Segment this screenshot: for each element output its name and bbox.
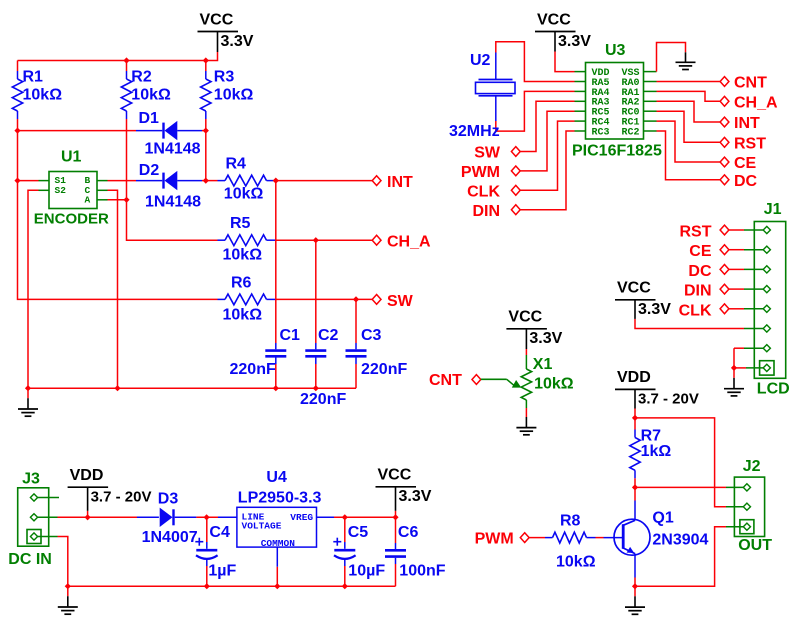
svg-text:10kΩ: 10kΩ xyxy=(131,87,171,104)
svg-text:VDD: VDD xyxy=(617,369,651,386)
svg-text:VOLTAGE: VOLTAGE xyxy=(242,520,282,531)
svg-text:R5: R5 xyxy=(230,215,251,232)
svg-text:DC: DC xyxy=(688,263,712,280)
svg-text:VCC: VCC xyxy=(617,280,651,297)
svg-text:OUT: OUT xyxy=(738,537,772,554)
svg-text:10kΩ: 10kΩ xyxy=(223,247,263,264)
svg-text:C2: C2 xyxy=(318,327,339,344)
svg-text:D1: D1 xyxy=(139,110,160,127)
svg-text:VCC: VCC xyxy=(200,11,234,28)
svg-text:3.3V: 3.3V xyxy=(529,330,562,347)
svg-text:J1: J1 xyxy=(764,201,782,218)
svg-text:3.3V: 3.3V xyxy=(399,488,432,505)
svg-text:220nF: 220nF xyxy=(300,391,346,408)
svg-text:U2: U2 xyxy=(470,52,491,69)
svg-text:1N4148: 1N4148 xyxy=(145,140,201,157)
svg-text:10kΩ: 10kΩ xyxy=(534,376,574,393)
svg-text:J3: J3 xyxy=(22,471,40,488)
svg-text:1µF: 1µF xyxy=(208,562,236,579)
svg-text:A: A xyxy=(85,195,91,206)
svg-text:3.3V: 3.3V xyxy=(558,33,591,50)
svg-text:1N4007: 1N4007 xyxy=(142,529,198,546)
svg-text:LP2950-3.3: LP2950-3.3 xyxy=(238,490,322,507)
svg-text:PWM: PWM xyxy=(461,164,500,181)
svg-text:RST: RST xyxy=(734,136,766,153)
svg-text:X1: X1 xyxy=(533,356,553,373)
svg-text:DC IN: DC IN xyxy=(8,551,52,568)
svg-text:CH_A: CH_A xyxy=(387,234,431,251)
svg-text:R4: R4 xyxy=(226,156,247,173)
svg-text:DIN: DIN xyxy=(684,283,712,300)
svg-text:RC2: RC2 xyxy=(622,127,640,138)
svg-text:CE: CE xyxy=(734,155,757,172)
svg-text:3.7 - 20V: 3.7 - 20V xyxy=(638,391,699,408)
svg-text:10µF: 10µF xyxy=(348,562,385,579)
svg-text:C4: C4 xyxy=(209,524,230,541)
svg-text:3.7 - 20V: 3.7 - 20V xyxy=(91,489,152,506)
svg-text:U1: U1 xyxy=(61,148,82,165)
svg-text:1N4148: 1N4148 xyxy=(145,193,201,210)
svg-text:10kΩ: 10kΩ xyxy=(214,87,254,104)
svg-text:DC: DC xyxy=(734,173,758,190)
svg-text:VDD: VDD xyxy=(70,467,104,484)
svg-text:CH_A: CH_A xyxy=(734,95,778,112)
svg-text:INT: INT xyxy=(387,174,413,191)
svg-text:SW: SW xyxy=(474,145,501,162)
svg-text:10kΩ: 10kΩ xyxy=(224,186,264,203)
svg-text:R2: R2 xyxy=(131,68,152,85)
svg-text:CLK: CLK xyxy=(467,184,500,201)
svg-text:RST: RST xyxy=(680,224,712,241)
svg-text:C1: C1 xyxy=(280,327,301,344)
svg-text:1kΩ: 1kΩ xyxy=(641,443,672,460)
svg-text:PWM: PWM xyxy=(475,531,514,548)
svg-text:ENCODER: ENCODER xyxy=(34,211,109,228)
svg-text:R8: R8 xyxy=(560,512,581,529)
svg-text:C6: C6 xyxy=(398,524,419,541)
svg-text:CNT: CNT xyxy=(429,372,462,389)
svg-text:R6: R6 xyxy=(231,275,252,292)
svg-text:R1: R1 xyxy=(23,68,44,85)
svg-text:100nF: 100nF xyxy=(399,562,445,579)
svg-text:U3: U3 xyxy=(605,42,626,59)
svg-text:CE: CE xyxy=(689,243,712,260)
svg-text:C3: C3 xyxy=(361,327,382,344)
svg-text:CLK: CLK xyxy=(679,302,712,319)
svg-text:10kΩ: 10kΩ xyxy=(556,553,596,570)
svg-text:Q1: Q1 xyxy=(652,510,673,527)
svg-text:R3: R3 xyxy=(214,68,235,85)
svg-text:DIN: DIN xyxy=(472,203,500,220)
svg-text:VREG: VREG xyxy=(290,512,313,523)
svg-text:J2: J2 xyxy=(743,458,761,475)
svg-text:CNT: CNT xyxy=(734,75,767,92)
svg-text:PIC16F1825: PIC16F1825 xyxy=(572,143,662,160)
svg-text:220nF: 220nF xyxy=(361,361,407,378)
svg-text:VCC: VCC xyxy=(537,11,571,28)
svg-text:32MHz: 32MHz xyxy=(449,123,500,140)
svg-text:3.3V: 3.3V xyxy=(638,301,671,318)
svg-text:220nF: 220nF xyxy=(230,361,276,378)
svg-text:LCD: LCD xyxy=(757,381,790,398)
svg-text:INT: INT xyxy=(734,115,760,132)
svg-text:C5: C5 xyxy=(348,524,369,541)
svg-text:S2: S2 xyxy=(55,185,67,196)
svg-text:VCC: VCC xyxy=(508,309,542,326)
svg-text:10kΩ: 10kΩ xyxy=(23,87,63,104)
svg-text:SW: SW xyxy=(387,293,414,310)
svg-text:D2: D2 xyxy=(139,162,160,179)
svg-text:D3: D3 xyxy=(158,491,179,508)
svg-text:RC3: RC3 xyxy=(592,127,610,138)
svg-text:10kΩ: 10kΩ xyxy=(223,307,263,324)
svg-text:3.3V: 3.3V xyxy=(221,33,254,50)
svg-text:U4: U4 xyxy=(266,469,287,486)
svg-text:2N3904: 2N3904 xyxy=(652,531,708,548)
svg-text:VCC: VCC xyxy=(378,467,412,484)
